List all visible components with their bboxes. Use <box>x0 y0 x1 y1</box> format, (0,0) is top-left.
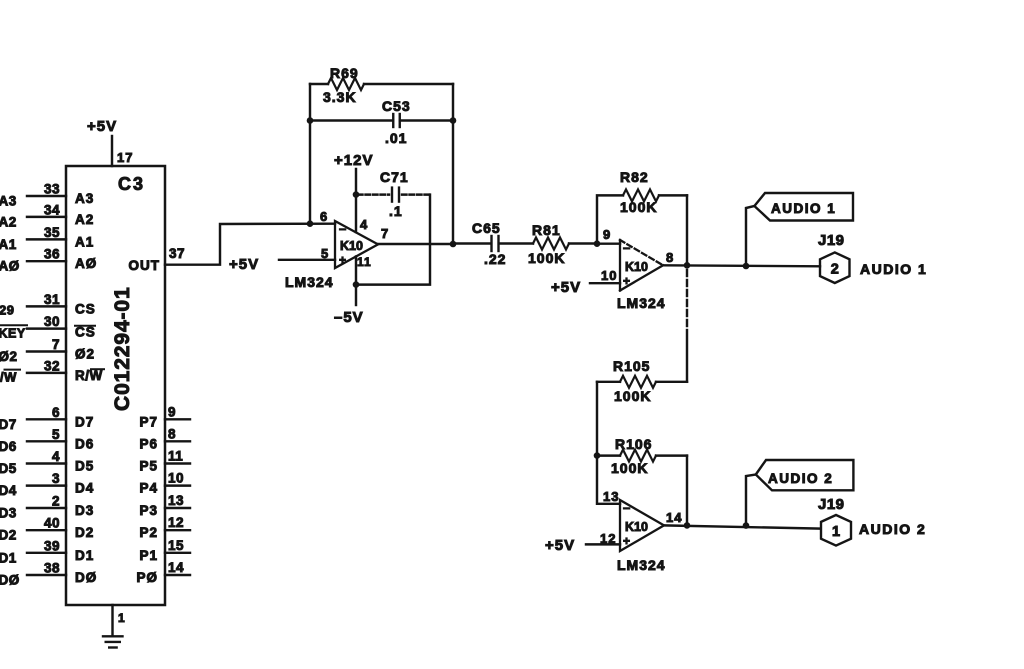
svg-text:8: 8 <box>168 426 176 441</box>
svg-text:–: – <box>623 240 631 255</box>
svg-text:D3: D3 <box>0 506 17 521</box>
op-amp U2 LM324 section K10 <box>619 240 621 291</box>
svg-text:P3: P3 <box>139 503 158 518</box>
svg-text:9: 9 <box>603 227 611 242</box>
svg-text:8: 8 <box>666 250 674 265</box>
svg-text:2: 2 <box>52 494 60 509</box>
svg-text:+5V: +5V <box>229 256 259 273</box>
svg-text:37: 37 <box>169 246 185 261</box>
svg-text:100K: 100K <box>620 199 657 215</box>
pin 32 (RW) wire <box>27 372 66 374</box>
svg-text:100K: 100K <box>611 460 648 476</box>
svg-text:+12V: +12V <box>334 152 373 169</box>
svg-text:C53: C53 <box>382 98 411 114</box>
svg-text:R82: R82 <box>620 169 649 185</box>
resistor R105 100K <box>656 381 687 383</box>
svg-text:40: 40 <box>44 516 60 531</box>
svg-text:P1: P1 <box>139 548 158 563</box>
svg-text:7: 7 <box>52 337 60 352</box>
svg-text:+: + <box>623 274 631 288</box>
svg-text:D2: D2 <box>75 525 94 540</box>
pin 6 (D7) wire <box>27 418 66 420</box>
resistor R82 100K feedback <box>597 195 623 243</box>
pin 11 (P5) wire <box>165 462 190 464</box>
svg-text:D7: D7 <box>0 417 17 432</box>
pin 10 (P4) wire <box>165 484 190 486</box>
svg-text:AØ: AØ <box>75 256 97 271</box>
svg-text:14: 14 <box>168 560 184 575</box>
svg-text:4: 4 <box>360 217 368 232</box>
svg-text:+: + <box>623 534 631 548</box>
pin 4 (D5) wire <box>27 462 66 464</box>
wire to AUDIO 2 flag <box>746 475 756 526</box>
svg-text:100K: 100K <box>528 250 565 266</box>
svg-text:D5: D5 <box>0 461 17 476</box>
wire output to C65 <box>453 242 491 244</box>
svg-text:P5: P5 <box>139 459 158 474</box>
svg-text:14: 14 <box>666 510 682 525</box>
svg-text:AUDIO 1: AUDIO 1 <box>771 201 836 216</box>
svg-text:9: 9 <box>168 404 176 419</box>
svg-text:AUDIO 2: AUDIO 2 <box>859 521 926 537</box>
svg-text:34: 34 <box>44 202 60 217</box>
junction C53 right <box>450 117 457 124</box>
junction U2 output / R82 <box>684 262 691 269</box>
svg-text:13: 13 <box>168 493 184 508</box>
svg-text:–: – <box>623 500 631 515</box>
wire feedback left vertical <box>309 84 311 224</box>
svg-text:17: 17 <box>117 150 133 165</box>
svg-text:AUDIO 2: AUDIO 2 <box>768 471 833 486</box>
svg-text:D1: D1 <box>0 550 17 565</box>
capacitor C53 .01 <box>310 119 393 121</box>
pin 8 (P6) wire <box>165 440 190 442</box>
svg-text:2: 2 <box>831 262 839 278</box>
wire C71 return to pin 11 <box>356 195 430 285</box>
junction C53 left <box>307 117 314 124</box>
svg-text:A2: A2 <box>75 212 94 227</box>
wire R105 left vertical <box>596 382 598 456</box>
svg-text:J19: J19 <box>818 232 845 249</box>
svg-text:K10: K10 <box>340 239 363 253</box>
wire R106 right vertical to U3 output <box>686 456 688 526</box>
svg-text:CS: CS <box>75 301 96 316</box>
svg-text:R106: R106 <box>615 436 652 452</box>
svg-text:39: 39 <box>44 538 60 553</box>
svg-text:7: 7 <box>381 226 389 241</box>
junction op-amp U2 inverting input node pin 9 <box>594 240 601 247</box>
svg-text:6: 6 <box>320 209 328 224</box>
svg-text:.1: .1 <box>389 203 403 219</box>
svg-text:11: 11 <box>357 255 372 269</box>
svg-text:C3: C3 <box>118 174 145 194</box>
pin 15 (P1) wire <box>165 552 190 554</box>
svg-text:6: 6 <box>52 405 60 420</box>
pin 13 (P3) wire <box>165 507 190 509</box>
svg-text:29: 29 <box>0 303 14 318</box>
pin 36 (A&#216;) wire <box>27 260 66 262</box>
svg-text:D1: D1 <box>75 548 94 563</box>
pin 38 (D&#216;) wire <box>27 574 66 576</box>
wire U2 output down to R105 <box>686 270 688 330</box>
pin 30 (CS2) wire <box>27 327 66 329</box>
svg-text:C65: C65 <box>472 220 501 236</box>
svg-text:R105: R105 <box>613 358 650 374</box>
svg-text:30: 30 <box>44 314 60 329</box>
svg-text:LM324: LM324 <box>617 295 666 311</box>
pin 31 (CS) wire <box>27 305 66 307</box>
svg-text:D3: D3 <box>75 503 94 518</box>
capacitor C71 .1 bypass <box>353 191 360 198</box>
pin 7 (&#216;2) wire <box>27 350 66 352</box>
pin 2 (D3) wire <box>27 507 66 509</box>
svg-text:P2: P2 <box>139 525 158 540</box>
svg-text:10: 10 <box>601 268 617 283</box>
svg-text:+5V: +5V <box>551 279 581 296</box>
resistor R106 100K feedback <box>597 454 620 456</box>
svg-text:+5V: +5V <box>545 537 575 554</box>
flag AUDIO 2 <box>756 460 854 490</box>
pin 5 (D6) wire <box>27 440 66 442</box>
ground pin 1 <box>111 605 113 636</box>
junction U3 inverting input node <box>594 452 601 459</box>
op-amp U3 LM324 section K10 <box>620 500 664 551</box>
pin 14 (P&#216;) wire <box>165 574 190 576</box>
svg-text:P7: P7 <box>139 414 158 429</box>
pin 3 (D4) wire <box>27 484 66 486</box>
svg-text:A3: A3 <box>0 194 17 209</box>
junction op-amp U1 inverting input node <box>307 220 314 227</box>
svg-text:/W: /W <box>0 370 17 385</box>
svg-text:A1: A1 <box>75 234 94 249</box>
svg-text:D2: D2 <box>0 528 17 543</box>
svg-text:AUDIO 1: AUDIO 1 <box>860 261 927 277</box>
svg-text:D4: D4 <box>75 481 94 496</box>
IC C3 C012294-01 body <box>66 166 165 605</box>
svg-text:+: + <box>339 253 347 267</box>
svg-text:LM324: LM324 <box>617 557 666 573</box>
svg-text:D7: D7 <box>75 414 94 429</box>
svg-text:R69: R69 <box>330 65 359 81</box>
pin 13 wire <box>597 456 620 504</box>
pin 35 (A1) wire <box>27 238 66 240</box>
junction U3 output / R106 <box>684 522 691 529</box>
svg-text:DØ: DØ <box>75 570 97 585</box>
junction op-amp U1 output node <box>450 241 457 248</box>
svg-text:K10: K10 <box>625 260 648 274</box>
svg-text:P6: P6 <box>139 436 158 451</box>
resistor R81 100K <box>533 238 569 250</box>
svg-text:PØ: PØ <box>136 570 158 585</box>
svg-text:10: 10 <box>168 471 184 486</box>
svg-text:C71: C71 <box>380 169 409 185</box>
svg-text:1: 1 <box>832 524 840 540</box>
pin 40 (D2) wire <box>27 529 66 531</box>
svg-text:+5V: +5V <box>87 118 117 135</box>
svg-text:12: 12 <box>168 515 184 530</box>
svg-text:1: 1 <box>118 611 126 625</box>
svg-text:100K: 100K <box>614 388 651 404</box>
svg-text:4: 4 <box>52 449 60 464</box>
capacitor C65 .22 <box>490 236 492 251</box>
pin 39 (D1) wire <box>27 552 66 554</box>
svg-text:5: 5 <box>321 246 329 261</box>
svg-text:D6: D6 <box>0 439 17 454</box>
svg-text:K10: K10 <box>625 520 648 534</box>
wire op-amp U1 output <box>378 243 453 245</box>
svg-text:J19: J19 <box>818 496 845 513</box>
resistor R69 3.3K feedback <box>310 83 328 85</box>
svg-text:31: 31 <box>44 292 60 307</box>
op-amp U1 LM324 section K10 <box>335 221 378 268</box>
svg-text:LM324: LM324 <box>285 274 334 290</box>
svg-text:A2: A2 <box>0 214 17 229</box>
pin 33 (A3) wire <box>27 195 66 197</box>
svg-text:R81: R81 <box>532 222 561 238</box>
svg-text:5: 5 <box>52 427 60 442</box>
wire R82 right vertical to output <box>686 195 688 265</box>
pin 12 (P2) wire <box>165 529 190 531</box>
wire C65 to R81 <box>499 242 533 244</box>
svg-text:–: – <box>339 221 347 236</box>
svg-text:–5V: –5V <box>334 309 364 326</box>
svg-text:12: 12 <box>600 531 616 546</box>
svg-text:CS: CS <box>75 325 96 340</box>
svg-text:Ø2: Ø2 <box>0 349 18 364</box>
svg-text:C012294-01: C012294-01 <box>111 286 134 411</box>
svg-text:D6: D6 <box>75 436 94 451</box>
pin 9 (P7) wire <box>165 418 190 420</box>
svg-text:36: 36 <box>44 247 60 262</box>
svg-text:13: 13 <box>603 489 619 504</box>
svg-text:33: 33 <box>44 182 60 197</box>
svg-text:DØ: DØ <box>0 573 20 588</box>
svg-text:A3: A3 <box>75 191 94 206</box>
junction AUDIO 2 flag tap <box>743 522 750 529</box>
svg-text:KEY: KEY <box>0 327 26 341</box>
svg-text:D5: D5 <box>75 459 94 474</box>
svg-text:OUT: OUT <box>129 258 161 273</box>
svg-text:3.3K: 3.3K <box>323 89 357 105</box>
svg-text:A1: A1 <box>0 237 17 252</box>
junction AUDIO 1 flag tap <box>743 263 750 270</box>
svg-text:35: 35 <box>44 225 60 240</box>
flag AUDIO 1 <box>754 193 853 221</box>
svg-text:.22: .22 <box>484 251 506 267</box>
svg-text:3: 3 <box>52 471 60 486</box>
svg-text:AØ: AØ <box>0 259 20 274</box>
svg-text:.01: .01 <box>385 130 407 146</box>
svg-text:P4: P4 <box>139 481 158 496</box>
svg-text:32: 32 <box>44 358 60 373</box>
svg-text:11: 11 <box>168 449 183 464</box>
pin 11 -5V supply <box>355 257 357 306</box>
svg-text:D4: D4 <box>0 483 17 498</box>
pin 34 (A2) wire <box>27 216 66 218</box>
wire to AUDIO 1 flag <box>746 206 754 265</box>
svg-text:15: 15 <box>168 538 184 553</box>
svg-text:Ø2: Ø2 <box>75 347 95 362</box>
wire feedback right vertical <box>452 84 454 244</box>
svg-text:38: 38 <box>44 561 60 576</box>
